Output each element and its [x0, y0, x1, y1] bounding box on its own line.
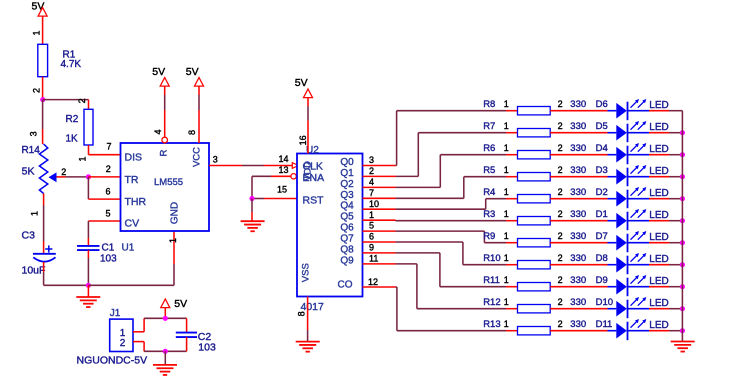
svg-text:R6: R6 — [483, 143, 495, 154]
resistor R9 (330) — [483, 231, 586, 247]
wire (to bus) — [649, 242, 682, 244]
svg-text:LED: LED — [649, 254, 668, 265]
wire (C1 to ground node) — [87, 250, 89, 285]
svg-text:D9: D9 — [596, 275, 608, 286]
resistor R1 — [38, 44, 82, 76]
pin number 3 (R14 top) — [28, 131, 38, 136]
wire — [42, 16, 44, 44]
svg-text:1: 1 — [30, 211, 40, 216]
wire (R14 bottom to C3) — [43, 194, 45, 254]
wire (R4 to D2) — [550, 198, 607, 200]
svg-text:4.7K: 4.7K — [61, 59, 82, 70]
label U2 — [306, 145, 319, 156]
pin number 8 — [187, 130, 197, 135]
svg-text:330: 330 — [570, 253, 586, 264]
wire (R11 to D9) — [550, 286, 607, 288]
wire (to bus) — [649, 110, 682, 112]
label 4017 — [301, 301, 325, 313]
svg-text:R11: R11 — [483, 275, 500, 286]
wire (4017 pin to row R10) — [363, 242, 518, 265]
wire (R9 to D7) — [550, 242, 607, 244]
pin number 1 (R1 top) — [32, 30, 42, 35]
LED D8 — [596, 253, 669, 274]
svg-text:15: 15 — [277, 184, 287, 194]
wire (4017 pin to row R11) — [363, 253, 518, 287]
svg-text:Q3: Q3 — [340, 190, 354, 201]
svg-text:330: 330 — [570, 275, 586, 286]
svg-text:LED: LED — [649, 144, 668, 155]
svg-text:1: 1 — [504, 121, 509, 131]
svg-text:7: 7 — [106, 142, 111, 152]
wire (TR pin) — [88, 176, 120, 178]
svg-text:R4: R4 — [483, 187, 495, 198]
svg-text:LED: LED — [649, 276, 668, 287]
wire (ground node to LM555 GND) — [88, 231, 174, 285]
wire (wiper to TR) — [57, 176, 89, 178]
pin number 8 (4017) — [297, 311, 307, 316]
wire (4017 pin to row R3) — [363, 219, 518, 222]
pin number 2 — [106, 164, 111, 174]
svg-text:DIS: DIS — [125, 151, 143, 163]
power 5V (4017 pin16) — [295, 77, 313, 98]
clock input arrow (pin 14) — [292, 163, 298, 169]
pin number 1 (LM555 GND) — [168, 238, 178, 243]
resistor R8 (330) — [483, 99, 586, 115]
wire — [42, 77, 44, 100]
pin number 5 — [105, 208, 110, 218]
pin number 1 (Q5) — [369, 210, 374, 220]
svg-text:LED: LED — [649, 320, 668, 331]
svg-text:Q0: Q0 — [340, 157, 354, 168]
svg-text:R2: R2 — [66, 114, 79, 125]
svg-text:7: 7 — [369, 188, 374, 198]
wire (R2 to DIS) — [89, 145, 121, 155]
svg-text:6: 6 — [105, 186, 110, 196]
wire (CV pin down to C1) — [88, 221, 120, 246]
svg-text:U1: U1 — [122, 243, 135, 254]
wire (to bus) — [649, 220, 682, 222]
wire (cathode bus) — [681, 111, 683, 342]
wire — [42, 100, 44, 145]
wire (R10 to D8) — [550, 264, 607, 266]
svg-text:10: 10 — [369, 199, 379, 209]
wire (4017 pin to row R4) — [363, 199, 518, 210]
svg-text:R13: R13 — [483, 319, 500, 330]
svg-text:LED: LED — [649, 100, 668, 111]
pin number 5 (Q6) — [369, 221, 374, 231]
node junction (bus row D1) — [680, 218, 685, 223]
wire (pin4 to 5V) — [164, 86, 166, 137]
label U1 — [122, 243, 135, 254]
svg-text:5V: 5V — [295, 77, 308, 89]
svg-text:LED: LED — [649, 122, 668, 133]
power 5V (LM555 pin8) — [186, 66, 204, 86]
pin 4 reset bubble — [162, 137, 168, 143]
wire (R3 to D1) — [550, 220, 607, 222]
LED D9 — [596, 275, 669, 296]
svg-text:330: 330 — [570, 165, 586, 176]
svg-text:5V: 5V — [174, 298, 187, 310]
svg-text:2: 2 — [558, 143, 563, 153]
svg-text:D4: D4 — [596, 143, 608, 154]
wire (4017 pin to row R6) — [363, 155, 518, 188]
pin number 6 (Q7) — [369, 232, 374, 242]
wire (4017 pin to row R12) — [363, 264, 518, 309]
svg-text:2: 2 — [77, 98, 87, 103]
pin number 7 (Q3) — [369, 188, 374, 198]
wire (R5 to D3) — [550, 176, 607, 178]
svg-text:330: 330 — [570, 231, 586, 242]
counter U2 4017 — [297, 154, 363, 297]
pin number 7 — [106, 142, 111, 152]
resistor R3 (330) — [483, 209, 586, 225]
svg-text:R9: R9 — [483, 231, 495, 242]
node junction (bus row D9) — [680, 284, 685, 289]
wire (LM555 pin3 to 4017 CLK) — [209, 165, 297, 167]
svg-text:Q8: Q8 — [340, 244, 354, 255]
svg-text:1: 1 — [504, 209, 509, 219]
pin number 12 (CO) — [368, 277, 378, 287]
svg-text:2: 2 — [558, 187, 563, 197]
resistor R5 (330) — [483, 165, 586, 181]
svg-text:NGUONDC-5V: NGUONDC-5V — [77, 354, 148, 366]
svg-text:Q6: Q6 — [340, 223, 354, 234]
wire (to bus) — [649, 198, 682, 200]
svg-text:3: 3 — [369, 155, 374, 165]
svg-text:J1: J1 — [110, 308, 121, 319]
wire (4017 pin to row R7) — [363, 133, 518, 177]
node junction (bus row D2) — [680, 196, 685, 201]
pin number 1 (R2 bottom) — [78, 156, 88, 161]
node junction (5V rail) — [163, 316, 168, 321]
svg-text:4017: 4017 — [301, 301, 325, 313]
wire (4017 pin to row R9) — [363, 231, 518, 243]
svg-text:Q1: Q1 — [340, 168, 354, 179]
pin number 9 (Q8) — [369, 243, 374, 253]
ground (LED bus) — [671, 342, 695, 352]
svg-text:2: 2 — [558, 253, 563, 263]
wire (R6 to D4) — [550, 154, 607, 156]
ground (J1) — [153, 351, 177, 375]
svg-text:2: 2 — [558, 297, 563, 307]
svg-text:R10: R10 — [483, 253, 500, 264]
svg-text:D3: D3 — [596, 165, 608, 176]
svg-text:2: 2 — [106, 164, 111, 174]
LED D2 — [596, 187, 669, 208]
pin number 3 — [213, 154, 218, 164]
pin number 3 (Q0) — [369, 155, 374, 165]
node junction (bus row D3) — [680, 174, 685, 179]
resistor R7 (330) — [483, 121, 586, 137]
svg-text:D7: D7 — [596, 231, 608, 242]
op-amp U1 LM555 — [121, 143, 210, 231]
svg-text:C3: C3 — [22, 230, 36, 242]
node junction (TR) — [86, 174, 91, 179]
svg-text:LM555: LM555 — [154, 177, 183, 188]
svg-text:5V: 5V — [152, 66, 165, 78]
pin 13 ENA bubble — [291, 174, 296, 179]
svg-text:1: 1 — [504, 99, 509, 109]
LED D1 — [596, 209, 669, 230]
svg-text:1: 1 — [504, 275, 509, 285]
svg-text:3: 3 — [28, 131, 38, 136]
svg-text:103: 103 — [100, 254, 117, 265]
svg-text:14: 14 — [278, 154, 288, 164]
wire (pin8 VSS to ground) — [307, 297, 309, 342]
pin number 10 (Q4) — [369, 199, 379, 209]
svg-text:THR: THR — [125, 196, 147, 208]
resistor R4 (330) — [483, 187, 586, 203]
svg-text:1: 1 — [78, 156, 88, 161]
svg-text:4: 4 — [369, 177, 374, 187]
capacitor C3 (polarized 10uF) — [22, 230, 56, 277]
resistor R12 (330) — [483, 297, 586, 313]
wire (R8 to D6) — [550, 110, 607, 112]
pin number 16 — [298, 135, 308, 145]
node junction (ground node) — [86, 283, 91, 288]
svg-text:R3: R3 — [483, 209, 495, 220]
node junction (bus row D10) — [680, 306, 685, 311]
resistor R13 (330) — [483, 319, 586, 335]
svg-text:16: 16 — [298, 135, 308, 145]
pin number 11 (Q9) — [369, 253, 378, 263]
wire (to bus) — [649, 264, 682, 266]
node junction (ENA/RST) — [249, 196, 254, 201]
ground (4017 VSS) — [296, 342, 320, 352]
potentiometer R14 — [21, 144, 56, 193]
pin number 15 — [277, 184, 287, 194]
wire (R7 to D5) — [550, 132, 607, 134]
svg-text:1: 1 — [504, 187, 509, 197]
wire (TR to THR) — [88, 177, 120, 199]
LED D6 — [596, 99, 669, 120]
svg-text:12: 12 — [368, 277, 378, 287]
pin number 2 (R1 bottom) — [32, 88, 42, 93]
wire (R12 to D10) — [550, 308, 607, 310]
power 5V (top left) — [32, 1, 48, 17]
wire (4017 pin to row R13) — [363, 287, 518, 331]
svg-text:D2: D2 — [596, 187, 608, 198]
wire (4017 pin to row R8) — [363, 111, 518, 166]
svg-text:GND: GND — [170, 202, 181, 224]
wire (J1 pin1 to 5V rail) — [133, 318, 187, 332]
svg-text:1K: 1K — [66, 134, 79, 145]
svg-text:LED: LED — [649, 188, 668, 199]
svg-text:R7: R7 — [483, 121, 495, 132]
wire (ENA to node) — [252, 176, 291, 198]
LED D3 — [596, 165, 669, 186]
svg-text:1: 1 — [168, 238, 178, 243]
svg-text:1: 1 — [504, 253, 509, 263]
svg-text:2: 2 — [369, 166, 374, 176]
svg-text:Q7: Q7 — [340, 234, 354, 245]
wire (to bus) — [649, 308, 682, 310]
svg-text:2: 2 — [32, 88, 42, 93]
svg-text:LED: LED — [649, 298, 668, 309]
LED D4 — [596, 143, 669, 164]
ground (ENA/RST) — [241, 199, 265, 232]
svg-text:D6: D6 — [596, 99, 608, 110]
svg-text:D10: D10 — [596, 297, 613, 308]
svg-text:2: 2 — [558, 99, 563, 109]
svg-text:2: 2 — [558, 319, 563, 329]
svg-text:330: 330 — [570, 319, 586, 330]
svg-text:R12: R12 — [483, 297, 500, 308]
wire (pin16 to 5V) — [307, 98, 309, 154]
svg-text:R: R — [159, 149, 170, 156]
svg-text:6: 6 — [369, 232, 374, 242]
pin number 1 (R14 bottom) — [30, 211, 40, 216]
svg-text:3: 3 — [213, 154, 218, 164]
svg-text:2: 2 — [558, 275, 563, 285]
svg-text:LED: LED — [649, 166, 668, 177]
svg-text:330: 330 — [570, 209, 586, 220]
capacitor C2 (103) — [176, 318, 216, 353]
resistor R11 (330) — [483, 275, 586, 291]
svg-text:D1: D1 — [596, 209, 608, 220]
svg-text:11: 11 — [369, 253, 378, 263]
svg-text:1: 1 — [504, 143, 509, 153]
pin number 4 — [153, 129, 163, 134]
svg-text:5: 5 — [369, 221, 374, 231]
svg-text:1: 1 — [504, 297, 509, 307]
power 5V (J1) — [161, 298, 187, 318]
connector J1 — [110, 308, 133, 352]
svg-text:1: 1 — [504, 165, 509, 175]
wire (to bus) — [649, 132, 682, 134]
svg-text:CO: CO — [338, 280, 353, 291]
svg-text:LED: LED — [649, 232, 668, 243]
wire (pin8 to 5V) — [198, 86, 200, 143]
wire (RST to node) — [252, 198, 297, 200]
svg-text:D8: D8 — [596, 253, 608, 264]
wire (to bus) — [649, 176, 682, 178]
svg-text:8: 8 — [187, 130, 197, 135]
pin number 13 — [278, 165, 288, 175]
pin number 4 (Q2) — [369, 177, 374, 187]
svg-text:Q2: Q2 — [340, 179, 354, 190]
svg-text:5: 5 — [105, 208, 110, 218]
wire (to bus) — [649, 154, 682, 156]
LED D5 — [596, 121, 669, 142]
svg-text:330: 330 — [570, 143, 586, 154]
pin number 2 (R2 top) — [77, 98, 87, 103]
svg-text:13: 13 — [278, 165, 288, 175]
label NGUONDC-5V — [77, 354, 148, 366]
LED D11 — [596, 319, 669, 340]
svg-text:5K: 5K — [22, 166, 35, 178]
svg-text:Q9: Q9 — [340, 255, 354, 266]
wire (C3 to ground node) — [44, 262, 89, 285]
svg-text:2: 2 — [558, 231, 563, 241]
svg-text:R14: R14 — [21, 145, 40, 156]
svg-text:8: 8 — [297, 311, 307, 316]
resistor R2 — [66, 109, 94, 145]
resistor R6 (330) — [483, 143, 586, 159]
svg-text:VDD: VDD — [303, 161, 314, 181]
svg-text:1: 1 — [32, 30, 42, 35]
svg-text:RST: RST — [303, 194, 325, 206]
svg-text:R8: R8 — [483, 99, 495, 110]
svg-text:CV: CV — [125, 218, 140, 230]
svg-text:330: 330 — [570, 297, 586, 308]
svg-text:330: 330 — [570, 187, 586, 198]
wire (4017 pin to row R5) — [363, 177, 518, 199]
ground (left) — [76, 285, 100, 307]
wire (J1 pin2 to gnd rail) — [133, 342, 187, 352]
svg-text:1: 1 — [504, 319, 509, 329]
svg-text:1: 1 — [369, 210, 374, 220]
svg-text:5V: 5V — [186, 66, 199, 78]
svg-text:C1: C1 — [102, 243, 115, 254]
svg-text:R5: R5 — [483, 165, 495, 176]
svg-text:D11: D11 — [596, 319, 613, 330]
svg-text:2: 2 — [120, 338, 126, 349]
node junction (R1/R2/R14) — [40, 97, 45, 102]
node junction (bus row D5) — [680, 130, 685, 135]
wire (node to R2) — [43, 100, 89, 110]
LED D7 — [596, 231, 669, 252]
pin number 14 — [278, 154, 288, 164]
node junction (bus row D8) — [680, 262, 685, 267]
pin number 2 (R14 wiper) — [61, 167, 66, 177]
node junction (gnd rail) — [163, 349, 168, 354]
svg-text:4: 4 — [153, 129, 163, 134]
pin number 2 (Q1) — [369, 166, 374, 176]
node junction (bus row D7) — [680, 240, 685, 245]
wire (to bus) — [649, 286, 682, 288]
svg-text:LED: LED — [649, 210, 668, 221]
LED D10 — [596, 297, 669, 318]
node junction (bus row D11) — [680, 328, 685, 333]
svg-text:2: 2 — [61, 167, 66, 177]
svg-text:D5: D5 — [596, 121, 608, 132]
svg-text:VSS: VSS — [301, 263, 312, 282]
svg-text:Q4: Q4 — [340, 201, 354, 212]
svg-text:2: 2 — [558, 121, 563, 131]
svg-text:Q5: Q5 — [340, 212, 354, 223]
svg-text:103: 103 — [198, 342, 216, 354]
node junction (bus row D4) — [680, 152, 685, 157]
pin number 6 — [105, 186, 110, 196]
svg-text:VCC: VCC — [192, 147, 203, 167]
wire (to bus) — [649, 330, 682, 332]
svg-text:2: 2 — [558, 165, 563, 175]
svg-text:330: 330 — [570, 99, 586, 110]
svg-text:TR: TR — [125, 174, 139, 186]
capacitor C1 (103) — [77, 243, 117, 265]
svg-text:2: 2 — [558, 209, 563, 219]
svg-text:10uF: 10uF — [22, 265, 46, 277]
svg-text:330: 330 — [570, 121, 586, 132]
wire (R13 to D11) — [550, 330, 607, 332]
power 5V (LM555 pin4) — [152, 66, 169, 86]
svg-text:9: 9 — [369, 243, 374, 253]
resistor R10 (330) — [483, 253, 586, 269]
svg-text:1: 1 — [504, 231, 509, 241]
